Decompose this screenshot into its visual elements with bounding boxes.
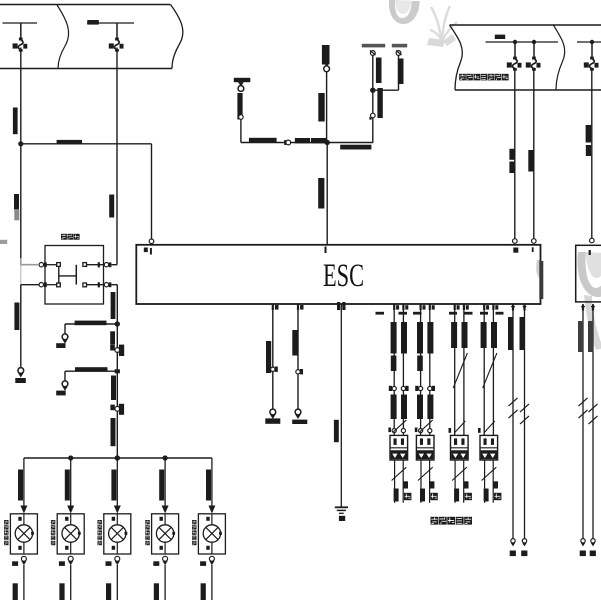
terminal label xyxy=(265,418,280,423)
relay pin 2 contact xyxy=(57,283,61,287)
node J2 xyxy=(115,321,120,326)
wire label thick xyxy=(75,367,108,371)
watermark plant xyxy=(430,6,457,41)
wire pair RR xyxy=(483,304,485,435)
node J6 xyxy=(370,88,375,93)
wire label xyxy=(111,418,116,446)
wire label xyxy=(13,583,18,600)
wire labels LF xyxy=(391,322,397,354)
wire label xyxy=(106,583,111,600)
connector A2 xyxy=(239,115,244,120)
connector pigtail xyxy=(18,368,24,374)
wire label xyxy=(111,376,116,401)
fuse box outline (top-left) xyxy=(0,4,171,6)
lamp L3 (左后转向灯) xyxy=(104,514,131,554)
wire label xyxy=(318,93,324,122)
wire fuse F3 to ESC xyxy=(514,68,516,239)
fuse F4 xyxy=(533,42,535,58)
wire label xyxy=(13,108,18,135)
wire label xyxy=(159,470,164,501)
connector pigtail xyxy=(270,409,276,415)
wire C down xyxy=(372,55,374,142)
wire C label thick xyxy=(376,58,382,84)
connector pigtail B xyxy=(324,62,330,66)
lamp name label 3 xyxy=(98,520,102,524)
wheel speed sensor pins RR xyxy=(483,305,485,311)
lamp name label 4 xyxy=(145,520,149,524)
wire label xyxy=(154,583,159,600)
arrow into lamp 4 xyxy=(162,506,169,514)
inline connector H xyxy=(286,140,291,145)
wire A label thick xyxy=(237,93,242,120)
wire branch B1 xyxy=(65,323,117,325)
fuse box outline (top-right) xyxy=(450,24,601,26)
lamp name label 5 xyxy=(192,520,196,524)
wire H xyxy=(291,142,328,144)
connector pigtail A xyxy=(238,82,244,86)
relay pin 4 right lead xyxy=(87,284,104,286)
lamp supply bus xyxy=(24,457,212,459)
wire trunk xyxy=(116,285,118,458)
gray terminal label D xyxy=(392,44,407,48)
break slashes right ECU harness xyxy=(579,398,588,406)
connector at ESC pin1 xyxy=(149,239,154,244)
terminal labels ESC right harness xyxy=(510,551,516,557)
fuse F5 bus xyxy=(577,41,601,43)
wire ESC pin to pigtail xyxy=(272,304,274,410)
fuse F2 xyxy=(116,23,118,39)
connector E xyxy=(371,113,376,118)
relay pin 1 contact xyxy=(57,263,61,267)
pin lead xyxy=(272,305,274,311)
fuse F2 bus xyxy=(87,22,134,24)
node J4 at lamp bus xyxy=(115,455,120,460)
wire label xyxy=(292,330,297,356)
node fuse F3 tap xyxy=(513,40,517,44)
wire relay left top elbow xyxy=(21,258,39,265)
fuse F3 bus xyxy=(486,41,559,43)
wire bus to lamp 2 xyxy=(70,458,72,506)
wire label thick xyxy=(75,321,107,326)
wire bus to lamp 1 xyxy=(23,458,25,506)
wire relay left link xyxy=(20,265,22,285)
fuse F1 xyxy=(20,23,22,39)
svg-text:ESC: ESC xyxy=(323,258,364,294)
twist slash RR xyxy=(483,353,497,388)
inline connectors LF xyxy=(392,386,396,390)
fuse F3 xyxy=(514,42,516,58)
wire labels lower RF xyxy=(417,395,423,420)
fuse F1 bus xyxy=(3,22,38,24)
pin label xyxy=(325,247,327,254)
connector at ESC top xyxy=(513,239,518,244)
relay coil xyxy=(58,266,60,283)
twist slash LR xyxy=(453,353,467,388)
decor gray mark xyxy=(0,240,7,244)
wire pair right ECU harness xyxy=(582,304,584,539)
wire label thick xyxy=(377,88,382,118)
wire D label thick xyxy=(398,59,404,85)
wire B label xyxy=(322,45,330,65)
wire pair RF xyxy=(420,304,422,435)
wire labels ESC right harness xyxy=(508,317,513,350)
wire branch B2 xyxy=(65,370,117,372)
connectors above box LF xyxy=(392,429,396,433)
wire label xyxy=(249,138,277,142)
break slashes ESC right harness xyxy=(509,398,518,406)
wire label xyxy=(340,145,371,150)
sensor connector LF xyxy=(390,435,408,460)
relay K1 label xyxy=(61,234,67,240)
wire label xyxy=(57,140,82,144)
wire fuse F4 to ESC xyxy=(533,68,535,239)
pin label xyxy=(150,248,152,255)
node fuse F4 tap xyxy=(532,40,536,44)
wire label xyxy=(65,470,70,501)
arrow into lamp 1 xyxy=(20,506,27,514)
wheel speed sensor pins LR xyxy=(454,305,456,311)
wheel speed sensor pins RF xyxy=(420,305,422,311)
connector pigtails ESC right harness xyxy=(511,539,515,543)
wire label xyxy=(18,470,23,501)
wire F1 down xyxy=(20,48,22,265)
wire label xyxy=(318,178,324,209)
wire label xyxy=(586,125,592,143)
pin leads ESC right harness xyxy=(512,305,514,311)
wire label xyxy=(59,583,64,600)
lamp L2 (右前转向灯) xyxy=(57,514,84,554)
pin label xyxy=(589,250,591,255)
inline connector xyxy=(296,370,300,374)
wire label xyxy=(14,303,19,331)
wire relay pin3 to left xyxy=(21,284,40,286)
wire label xyxy=(109,195,114,218)
arrow into lamp 2 xyxy=(67,506,74,514)
inline connectors RF xyxy=(419,386,423,390)
sensor cable RF xyxy=(420,460,422,503)
connector pigtail lamp 2 xyxy=(68,556,73,561)
wire J1 to ESC horizontal xyxy=(21,143,152,145)
wire pair ESC right harness xyxy=(512,304,514,539)
wire label xyxy=(266,341,271,373)
dashed boundary xyxy=(376,312,385,315)
ESC edge smudge xyxy=(539,261,543,299)
inline connector xyxy=(110,345,115,351)
wire label thick xyxy=(295,138,310,143)
connector pigtail 2 xyxy=(295,409,301,415)
wire labels LR xyxy=(451,322,457,348)
wire fuse F5 to right ECU xyxy=(591,68,593,239)
wire pair LR xyxy=(454,304,456,435)
fuse F5 xyxy=(591,42,593,58)
terminal label xyxy=(56,343,65,348)
terminal label xyxy=(292,420,307,424)
fuse box 2 label xyxy=(459,74,466,81)
connector pigtail lamp 5 xyxy=(209,556,214,561)
wire lamp 3 down xyxy=(116,565,118,600)
node J3 xyxy=(115,369,120,373)
wheel speed sensor pins LF xyxy=(393,305,395,311)
lamp L4 (右后转向灯) xyxy=(152,514,179,554)
connector pigtails right ECU harness xyxy=(581,539,585,543)
wire bus to lamp 4 xyxy=(164,458,166,506)
connector pigtail B2 xyxy=(62,381,68,387)
node fuse F5 tap xyxy=(590,40,594,44)
wire label xyxy=(206,470,211,501)
pin label xyxy=(513,248,518,253)
connector pigtail B1 xyxy=(62,334,68,340)
connector D xyxy=(396,51,401,56)
wire B down xyxy=(326,71,328,142)
node J5 xyxy=(325,140,330,145)
inline connector 2 xyxy=(110,405,114,411)
ground xyxy=(335,506,348,508)
fuse F2 value label xyxy=(87,20,99,25)
wire lamp 1 down xyxy=(23,565,25,600)
wire label xyxy=(14,194,19,210)
arrow into lamp 5 xyxy=(208,506,215,514)
connectors above box RF xyxy=(419,429,423,433)
wire bus to lamp 5 xyxy=(211,458,213,506)
wire label xyxy=(111,470,116,501)
wire F2 down xyxy=(116,48,118,265)
connector pigtail lamp 4 xyxy=(163,556,168,561)
wire pair LF xyxy=(393,304,395,435)
lamp name label 2 xyxy=(51,520,55,524)
wire B to ESC xyxy=(326,143,328,246)
pin lead xyxy=(337,302,340,310)
wire ESC pin to pigtail 2 xyxy=(297,304,299,410)
ECU right box xyxy=(576,245,601,302)
watermark swirl right xyxy=(577,252,601,297)
wire A down xyxy=(240,119,242,142)
wire D down xyxy=(398,55,400,90)
relay pin 1 left lead xyxy=(45,264,57,266)
relay pin 2 right lead xyxy=(87,264,104,266)
sensor cable RR xyxy=(484,460,486,503)
pin lead xyxy=(297,305,299,311)
connector C xyxy=(370,51,375,56)
wire down to ESC pin1 xyxy=(151,144,153,240)
watermark swoosh top xyxy=(389,0,420,24)
ECU ESC box xyxy=(136,245,540,304)
wire lamp 4 down xyxy=(164,565,166,600)
wire label xyxy=(201,583,206,600)
arrow into lamp 3 xyxy=(114,506,121,514)
gray terminal label C xyxy=(362,44,385,48)
relay pin 3 left lead xyxy=(45,284,57,286)
wire labels RR xyxy=(481,322,487,348)
wheel speed sensor label xyxy=(431,517,439,525)
connector pigtail lamp 1 xyxy=(21,556,26,561)
fuse F3 value label xyxy=(495,35,505,39)
lamp name label 1 xyxy=(4,520,8,524)
wire lamp 2 down xyxy=(70,565,72,600)
wire labels right ECU harness xyxy=(578,321,583,352)
wire labels lower LF xyxy=(391,395,397,420)
relay K1 box xyxy=(45,246,104,305)
terminal label xyxy=(56,391,65,396)
wire label xyxy=(110,331,115,344)
wire label xyxy=(334,420,339,442)
terminal labels right ECU harness xyxy=(580,551,586,557)
sensor connector LR xyxy=(451,435,469,460)
wire ESC to ground xyxy=(340,304,342,507)
terminal label xyxy=(15,378,25,383)
sensor connector RF xyxy=(416,435,434,460)
node J1 xyxy=(18,141,23,146)
wire bus to lamp 3 xyxy=(116,458,118,506)
inline connector xyxy=(271,367,275,371)
connector at right ECU top xyxy=(590,238,595,243)
wire lamp 5 down xyxy=(211,565,213,600)
sensor connector RR xyxy=(480,435,498,460)
wire label xyxy=(528,150,533,172)
connector at ESC top xyxy=(532,239,537,244)
lamp L5 (转向指示灯) xyxy=(198,514,225,554)
wire labels RF xyxy=(417,322,423,354)
wire relay pin4 right xyxy=(112,264,118,266)
pin leads right ECU harness xyxy=(582,305,584,311)
sensor cable LF xyxy=(394,460,396,503)
connector pigtail lamp 3 xyxy=(115,556,120,561)
wire H2 xyxy=(327,142,373,144)
wire label xyxy=(509,149,514,160)
wire A label xyxy=(234,78,251,82)
wire label xyxy=(111,292,116,319)
sensor cable LR xyxy=(454,460,456,503)
lamp L1 (左前转向灯) xyxy=(10,514,37,554)
